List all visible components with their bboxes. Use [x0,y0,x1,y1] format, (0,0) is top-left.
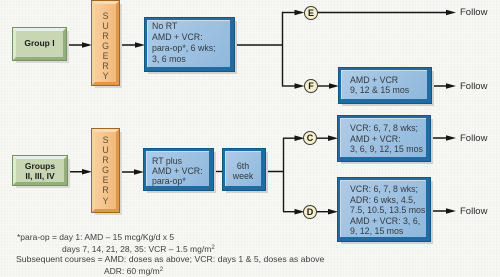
box AMD + VCR 9,12,15 [339,68,431,103]
wire branch vertical C/D [283,138,285,212]
box VCR D [338,178,430,241]
wire No RT box to branch point [234,44,283,46]
footnote line 3 [16,254,324,264]
wire RT box to 6th week box [213,171,223,173]
wire F-box to Follow [431,85,448,87]
wire branch vertical E/F [282,12,284,86]
footnote line 2 [62,243,215,254]
wire C-box to Follow [430,137,448,139]
wire branch to C [283,137,296,139]
wire Surgery to No RT box [119,44,137,46]
wire branch to F [282,85,296,87]
label Follow (C row) [460,133,487,144]
wire E to Follow [318,12,448,14]
box RT plus [144,149,213,190]
wire branch to E [282,12,296,14]
node D [303,205,317,219]
wire 6th week box to branch point [265,171,284,173]
wire F to F-box [318,85,331,87]
label Follow (F row) [460,81,487,92]
arrowhead D-box to Follow [446,208,456,214]
arrowhead into D-box [328,209,338,215]
box SURGERY top [92,1,119,85]
node C [303,131,317,145]
wire branch to D [283,211,296,213]
node E [304,6,318,20]
wire D to D-box [317,211,330,213]
box No RT / AMD + VCR [145,18,234,71]
arrowhead C-box to Follow [446,135,456,141]
label Follow (D row) [460,206,487,217]
arrowhead into No RT box [135,42,145,48]
arrowhead into E [295,10,305,16]
arrowhead into Surgery [82,42,92,48]
node F [304,79,318,93]
footnote line 1 [17,232,174,242]
box Groups II III IV [13,156,67,185]
box Group I [13,28,66,60]
footnote line 4 [104,265,163,276]
label Follow (E row) [460,7,487,18]
box VCR C [338,116,430,161]
wire Surgery2 to RT box [119,171,136,173]
arrowhead into Surgery2 [82,169,92,175]
arrowhead into F [295,83,305,89]
arrowhead E to Follow [446,10,456,16]
arrowhead into C-box [328,135,338,141]
arrowhead into F-box [329,83,339,89]
arrowhead into RT box [134,169,144,175]
arrowhead into D [295,209,305,215]
wire Groups to Surgery2 [66,171,84,173]
wire D-box to Follow [430,210,448,212]
wire Group I to Surgery [66,44,84,46]
arrowhead F-box to Follow [446,83,456,89]
box SURGERY bottom [92,129,119,212]
arrowhead into C [295,135,305,141]
wire C to C-box [317,137,330,139]
box 6th week [223,149,265,190]
